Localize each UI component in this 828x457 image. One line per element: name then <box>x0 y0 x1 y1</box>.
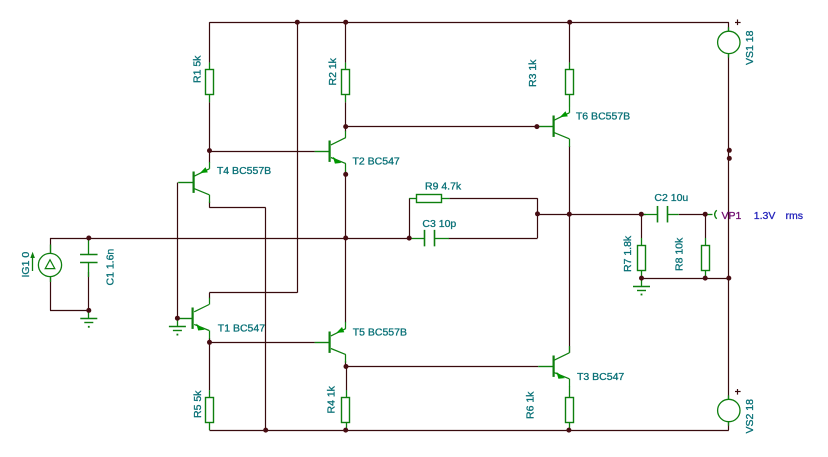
svg-text:T6 BC557B: T6 BC557B <box>576 111 630 123</box>
svg-text:rms: rms <box>786 210 804 222</box>
svg-text:R9 4.7k: R9 4.7k <box>425 181 462 193</box>
svg-text:C3 10p: C3 10p <box>422 218 456 230</box>
svg-text:VS2 18: VS2 18 <box>744 399 756 434</box>
svg-text:T1 BC547: T1 BC547 <box>218 322 265 334</box>
svg-text:R6 1k: R6 1k <box>524 391 536 419</box>
svg-text:C1 1.6n: C1 1.6n <box>105 249 117 286</box>
svg-text:T4 BC557B: T4 BC557B <box>217 165 271 177</box>
svg-text:R7 1.8k: R7 1.8k <box>622 235 634 272</box>
svg-text:R8 10k: R8 10k <box>674 237 686 271</box>
svg-text:VP1: VP1 <box>722 210 742 222</box>
svg-text:IG1 0: IG1 0 <box>20 252 32 278</box>
svg-text:1.3V: 1.3V <box>754 210 776 222</box>
svg-text:R2 1k: R2 1k <box>327 57 339 85</box>
svg-text:T2 BC547: T2 BC547 <box>353 156 400 168</box>
svg-text:R4 1k: R4 1k <box>326 385 338 413</box>
svg-text:VS1 18: VS1 18 <box>744 30 756 65</box>
svg-text:R1 5k: R1 5k <box>192 55 204 83</box>
svg-text:T5 BC557B: T5 BC557B <box>353 327 407 339</box>
svg-text:C2 10u: C2 10u <box>654 192 688 204</box>
svg-text:T3 BC547: T3 BC547 <box>577 371 624 383</box>
svg-text:R5 5k: R5 5k <box>192 390 204 418</box>
svg-text:R3 1k: R3 1k <box>527 59 539 87</box>
